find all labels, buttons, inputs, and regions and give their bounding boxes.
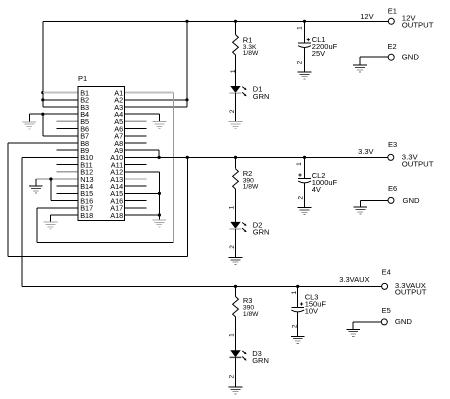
wire N13 ground stem	[35, 179, 37, 186]
wire B8 right vertical to 3.3V rail	[187, 157, 189, 256]
svg-text:OUTPUT: OUTPUT	[395, 287, 427, 296]
LED D2	[230, 222, 240, 229]
wire A12 pin	[124, 171, 159, 173]
junction 3.3V rail / B8	[186, 156, 189, 159]
wire D3 to ground	[235, 357, 237, 386]
svg-text:OUTPUT: OUTPUT	[402, 159, 434, 168]
connector P1 body	[78, 86, 124, 220]
wire B18 ground stem	[50, 215, 52, 222]
capacitor CL1	[298, 42, 311, 44]
svg-text:E4: E4	[382, 267, 391, 276]
svg-text:GRN: GRN	[253, 228, 270, 237]
svg-text:GRN: GRN	[252, 356, 269, 365]
terminal E3	[388, 154, 394, 160]
svg-text:3.3VAUX: 3.3VAUX	[339, 275, 369, 284]
capacitor CL3	[291, 306, 304, 308]
svg-text:2: 2	[298, 196, 305, 200]
wire B17-A1 bottom	[37, 241, 174, 243]
wire A1 vertical (gray)	[173, 93, 175, 243]
wire R2 to D2	[235, 191, 237, 222]
junction B1	[41, 91, 44, 94]
wire N13-B16 vertical	[50, 179, 52, 201]
svg-text:2: 2	[292, 324, 299, 328]
wire A3 pin	[124, 106, 187, 108]
wire A9 stem to rail	[158, 150, 160, 157]
node 3.3V rail	[124, 156, 388, 158]
capacitor CL2	[298, 177, 311, 179]
ground B4 (gray)	[23, 121, 37, 123]
wire B17 vertical	[36, 208, 38, 243]
ground CL2	[298, 207, 312, 209]
svg-text:10V: 10V	[305, 307, 318, 316]
wire B10 vertical	[21, 157, 23, 286]
wire A7 stub	[124, 135, 146, 137]
wire B6 stub	[57, 128, 78, 130]
wire N13 pin	[36, 178, 78, 180]
junction 12V rail / R1	[234, 20, 237, 23]
svg-text:3.3V: 3.3V	[358, 147, 373, 156]
svg-text:E5: E5	[382, 306, 391, 315]
svg-text:E6: E6	[388, 184, 397, 193]
terminal E1	[388, 18, 394, 24]
wire E5 to ground	[353, 321, 381, 323]
svg-text:GND: GND	[395, 317, 413, 326]
junction A18	[158, 213, 161, 216]
svg-text:A18: A18	[110, 211, 123, 220]
wire A13 stub	[124, 178, 146, 180]
wire CL2 to ground	[304, 183, 306, 207]
svg-text:P1: P1	[78, 74, 87, 83]
wire R1 to D1	[235, 57, 237, 86]
junction 3.3VAUX rail / CL3	[296, 285, 299, 288]
wire A6 stub	[124, 128, 146, 130]
ground D1 (gray)	[229, 121, 243, 123]
wire 3.3VAUX rail to R3	[235, 286, 237, 296]
junction 12V rail / A2 branch	[185, 20, 188, 23]
wire B17 pin	[37, 207, 78, 209]
wire 3.3VAUX rail to CL3	[297, 286, 299, 307]
svg-text:25V: 25V	[312, 49, 325, 58]
svg-text:1: 1	[297, 26, 304, 30]
wire B10 pin	[22, 156, 78, 158]
wire R3 to D3	[235, 319, 237, 351]
junction 3.3VAUX rail / R3	[234, 285, 237, 288]
svg-text:4V: 4V	[312, 185, 321, 194]
wire A15 pin	[124, 192, 159, 194]
wire A5 stub	[124, 120, 146, 122]
wire 12V rail to R1	[235, 21, 237, 34]
wire B3 pin	[43, 106, 78, 108]
wire A16 stub	[124, 200, 146, 202]
wire B9 stub	[57, 149, 78, 151]
wire CL3 to ground	[297, 312, 299, 336]
ground E5	[346, 328, 360, 330]
svg-text:2: 2	[297, 60, 304, 64]
wire B16 pin	[51, 200, 78, 202]
wire A14 stub	[124, 185, 146, 187]
wire E2 to ground	[360, 56, 388, 58]
resistor R1	[233, 35, 239, 57]
wire CL1 to ground	[304, 48, 306, 72]
wire B4 pin	[29, 113, 78, 115]
svg-text:GND: GND	[402, 53, 420, 62]
svg-text:1/8W: 1/8W	[243, 184, 259, 191]
svg-text:E2: E2	[388, 42, 397, 51]
wire B15 stub	[57, 192, 78, 194]
svg-text:E3: E3	[388, 140, 397, 149]
terminal E2	[388, 54, 394, 60]
svg-text:1: 1	[228, 333, 235, 337]
svg-text:GND: GND	[403, 196, 421, 205]
svg-text:B18: B18	[80, 211, 93, 220]
svg-text:12V: 12V	[360, 12, 373, 21]
wire B12 stub	[57, 171, 78, 173]
wire A2 pin	[124, 99, 187, 101]
junction B2	[41, 98, 44, 101]
wire A9 pin	[124, 149, 159, 151]
node 3.3VAUX rail	[22, 285, 382, 287]
LED D3	[230, 350, 240, 357]
junction 3.3V rail / A9	[158, 156, 161, 159]
terminal E5	[381, 319, 387, 325]
resistor R3	[233, 297, 239, 319]
wire E6 to ground	[360, 199, 388, 201]
svg-text:2: 2	[229, 109, 236, 113]
wire A8 stub	[124, 142, 146, 144]
wire A18 pin	[124, 214, 159, 216]
svg-text:2: 2	[229, 245, 236, 249]
ground D2	[229, 256, 243, 258]
wire B8 pin	[8, 142, 78, 144]
ground D3	[229, 386, 243, 388]
terminal E4	[382, 283, 388, 289]
wire A4 pin	[124, 113, 159, 115]
ground E2	[353, 64, 367, 66]
LED D1	[230, 86, 240, 93]
wire 3.3V rail to CL2	[304, 157, 306, 178]
svg-text:2: 2	[228, 375, 235, 379]
terminal E6	[388, 197, 394, 203]
wire A1 pin (gray)	[124, 92, 173, 94]
ground B18 (gray)	[44, 221, 58, 223]
wire A12-A18 vertical	[158, 172, 160, 220]
wire B4 ground stem	[28, 114, 30, 121]
svg-text:1: 1	[296, 162, 303, 166]
wire B11 stub	[57, 164, 78, 166]
ground CL3	[291, 335, 305, 337]
svg-text:1/8W: 1/8W	[243, 50, 259, 57]
wire B7 pin	[43, 135, 78, 137]
ground A4 (gray)	[153, 121, 167, 123]
svg-text:1: 1	[228, 205, 235, 209]
ground A12/A15/A18 (gray)	[153, 219, 167, 221]
wire B18 pin	[51, 214, 79, 216]
wire B1 pin	[43, 92, 78, 94]
svg-text:E1: E1	[388, 7, 397, 16]
wire D2 to ground	[235, 229, 237, 257]
wire B5 stub	[57, 120, 78, 122]
junction N13	[49, 177, 52, 180]
wire B14 stub	[57, 185, 78, 187]
svg-text:1/8W: 1/8W	[243, 311, 259, 318]
svg-text:GRN: GRN	[253, 92, 270, 101]
junction 3.3V rail / R2	[234, 156, 237, 159]
junction A2	[185, 98, 188, 101]
junction 3.3V rail / CL2	[303, 156, 306, 159]
junction B4	[41, 113, 44, 116]
resistor R2	[233, 169, 239, 191]
wire 12V rail to CL1	[304, 21, 306, 43]
wire B4-B7 vertical	[42, 114, 44, 136]
wire 12V right vertical to A2-A3	[186, 21, 188, 107]
svg-text:1: 1	[291, 291, 298, 295]
wire A17 stub	[124, 207, 146, 209]
junction A15	[158, 192, 161, 195]
node 12V rail	[43, 20, 388, 22]
ground N13	[29, 185, 43, 187]
junction 12V rail / CL1	[303, 20, 306, 23]
wire 12V left vertical to B1-B3	[42, 21, 44, 107]
ground E6	[354, 206, 368, 208]
ground CL1	[298, 71, 312, 73]
svg-text:OUTPUT: OUTPUT	[402, 21, 434, 30]
wire A11 stub	[124, 164, 146, 166]
wire 3.3V rail to R2	[235, 157, 237, 168]
wire B8 bottom horizontal	[8, 256, 188, 258]
svg-text:1: 1	[230, 69, 237, 73]
wire B2 pin	[43, 99, 78, 101]
wire B8 left vertical	[7, 143, 9, 257]
wire A4 ground stem	[159, 114, 161, 121]
wire D1 to ground	[235, 93, 237, 121]
